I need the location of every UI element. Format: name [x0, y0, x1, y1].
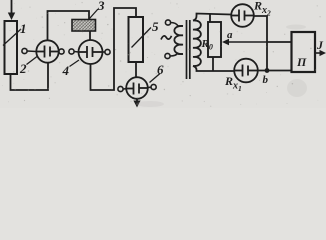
- rheostat 5: [129, 17, 144, 62]
- label 2 with pointer: [19, 57, 37, 77]
- svg-text:4: 4: [62, 63, 70, 78]
- resistor Rx1 (thermocouple circle): [234, 59, 258, 83]
- wire: chopper 3 bottom to circle 4 top: [89, 31, 91, 40]
- label 1 with pointer: [3, 21, 27, 46]
- thermoelement 6: [126, 77, 148, 99]
- potentiometer R0: [208, 22, 221, 57]
- thermoelement 2: [36, 40, 58, 62]
- terminal: circle 6 right plug: [148, 84, 156, 89]
- transformer secondary winding: [193, 20, 201, 66]
- wire: circle 4 bottom loop to rheostat 5 top: [91, 8, 137, 90]
- svg-text:6: 6: [157, 62, 164, 77]
- svg-text:b: b: [263, 74, 269, 86]
- wire: receiver 1 bottom to circle 2 bottom: [11, 63, 49, 90]
- thermoelement 4: [79, 40, 103, 64]
- arrow: incident radiation into receiver 1: [8, 0, 15, 20]
- terminal: circle 2 left plug: [22, 48, 36, 53]
- svg-text:1: 1: [20, 21, 27, 36]
- svg-text:J: J: [316, 38, 324, 52]
- output arrow J: [316, 38, 326, 56]
- transformer core: [187, 20, 190, 79]
- resistor Rx2 (thermocouple circle): [231, 4, 254, 27]
- label 5 with pointer: [132, 19, 160, 48]
- terminal: circle 4 right plug: [102, 49, 110, 54]
- terminal: circle 4 left plug: [69, 49, 79, 54]
- wiper arrow from node a to R0: [222, 39, 267, 46]
- junction node b: [263, 68, 270, 86]
- svg-text:3: 3: [97, 0, 105, 13]
- terminal: transformer primary bottom: [165, 53, 178, 59]
- terminal: circle 2 right plug: [59, 49, 64, 54]
- wire: secondary bottom to bottom rail: [193, 66, 234, 71]
- wire: Rx1 right to potentiometer box P: [258, 70, 292, 72]
- svg-text:a: a: [227, 29, 233, 41]
- arrow: circle 6 output downward: [133, 99, 140, 108]
- svg-text:2: 2: [19, 61, 27, 76]
- label 4 with pointer: [62, 60, 80, 78]
- terminal: circle 6 left plug: [118, 86, 126, 91]
- label 6 with pointer: [150, 62, 165, 83]
- svg-text:5: 5: [152, 19, 159, 34]
- label 3 with pointer: [90, 0, 106, 19]
- terminal: transformer primary top: [165, 20, 178, 26]
- potentiometer box P: [292, 32, 316, 72]
- wire: rheostat 5 bottom to circle 6 top: [135, 62, 137, 78]
- chopper block 3 (hatched): [72, 20, 96, 32]
- wire: R0 top lead: [209, 14, 211, 22]
- wire: R0 bottom lead: [212, 57, 214, 71]
- wire: circle 2 top to chopper 3: [48, 11, 90, 40]
- wire: secondary top to Rx2: [193, 14, 231, 21]
- transformer primary winding: [174, 26, 183, 54]
- ac source tilde: [161, 36, 172, 40]
- wire: Rx2 right lead down to node b: [254, 16, 267, 71]
- svg-text:П: П: [296, 55, 307, 69]
- wire: node a to potentiometer box P: [267, 41, 292, 43]
- receiver block 1: [5, 21, 18, 74]
